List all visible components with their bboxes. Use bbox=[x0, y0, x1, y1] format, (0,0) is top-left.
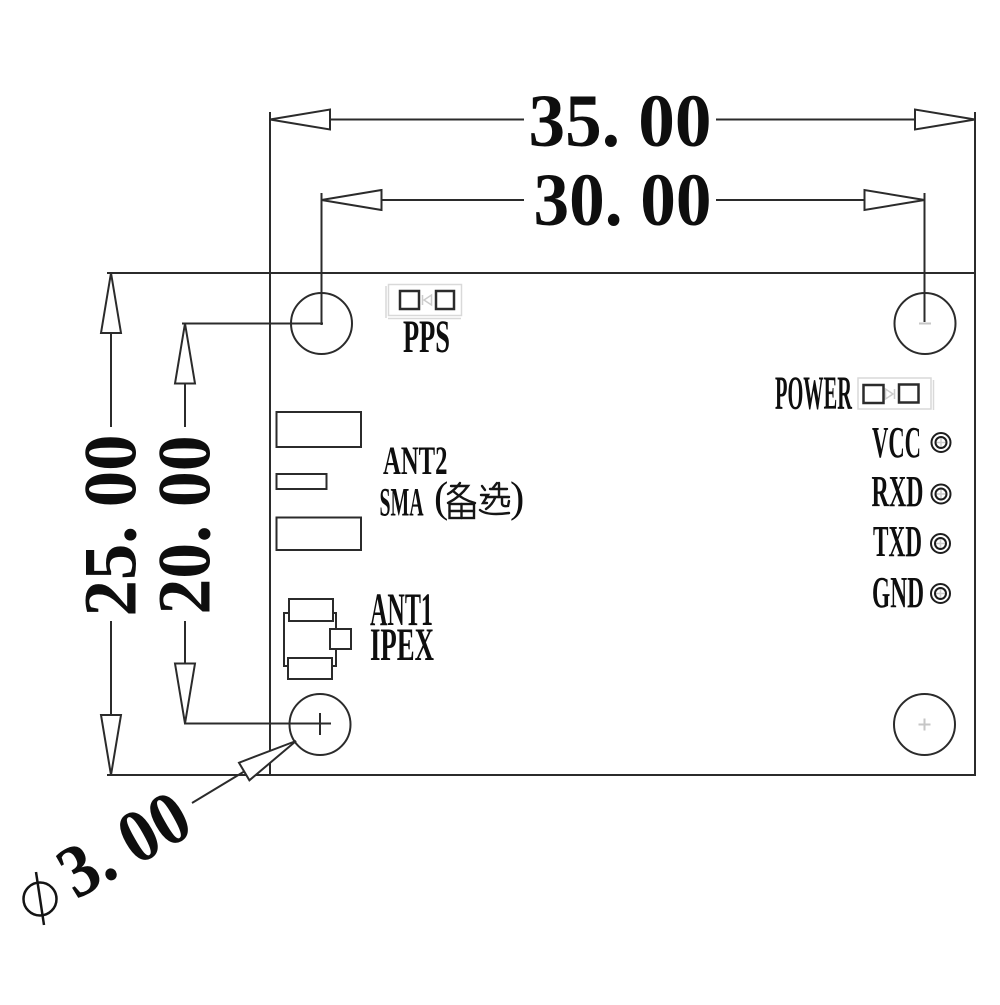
svg-text:30. 00: 30. 00 bbox=[534, 159, 712, 242]
svg-text:SMA: SMA bbox=[380, 480, 424, 525]
svg-text:VCC: VCC bbox=[872, 418, 921, 467]
svg-text:): ) bbox=[510, 475, 524, 522]
svg-text:35. 00: 35. 00 bbox=[529, 80, 712, 163]
svg-text:IPEX: IPEX bbox=[370, 619, 434, 671]
svg-text:GND: GND bbox=[872, 568, 924, 617]
svg-text:TXD: TXD bbox=[873, 517, 922, 566]
svg-text:RXD: RXD bbox=[872, 467, 924, 516]
svg-text:POWER: POWER bbox=[775, 367, 853, 420]
svg-text:(: ( bbox=[434, 475, 448, 522]
svg-text:25. 00: 25. 00 bbox=[70, 435, 153, 617]
svg-text:PPS: PPS bbox=[403, 311, 450, 363]
svg-text:20. 00: 20. 00 bbox=[144, 436, 227, 615]
